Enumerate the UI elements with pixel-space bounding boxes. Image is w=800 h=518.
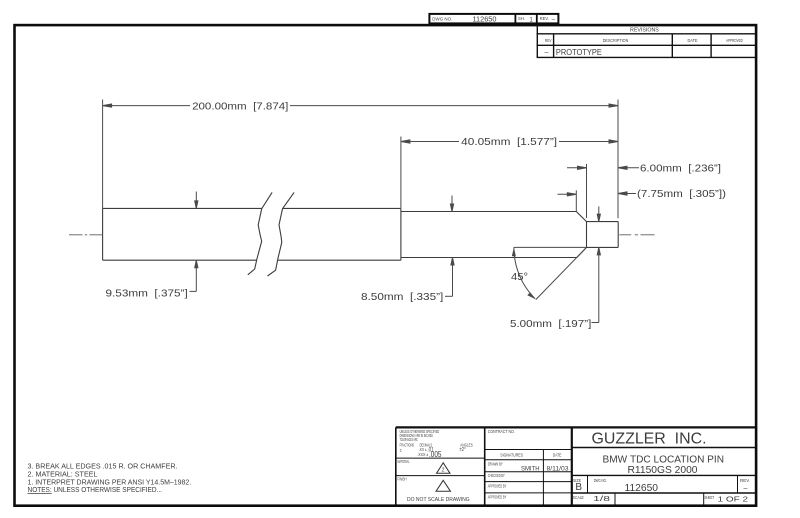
svg-text:6.00mm [.236”]: 6.00mm [.236”] <box>640 163 721 174</box>
svg-text:SH.: SH. <box>518 16 525 21</box>
svg-text:2: 2 <box>442 468 445 474</box>
centerline left <box>69 234 103 236</box>
svg-text:.005: .005 <box>429 450 442 459</box>
svg-text:REV.: REV. <box>540 16 549 21</box>
svg-text:9.53mm [.375”]: 9.53mm [.375”] <box>106 288 188 299</box>
shaft middle section 8.50mm dia <box>401 211 576 213</box>
size / dwg no / rev row <box>573 478 749 494</box>
svg-text:PROTOTYPE: PROTOTYPE <box>556 47 602 57</box>
svg-text:40.05mm [1.577”]: 40.05mm [1.577”] <box>461 137 557 148</box>
svg-text:SMITH: SMITH <box>521 465 540 472</box>
svg-text:SIGNATURES: SIGNATURES <box>500 453 523 458</box>
top title strip: DWG NO. box <box>429 13 558 24</box>
svg-text:REVISIONS: REVISIONS <box>630 28 659 34</box>
break line left squiggle <box>248 192 272 274</box>
svg-text:BMW TDC LOCATION PIN: BMW TDC LOCATION PIN <box>603 454 725 465</box>
dimension (7.75mm [.305"]) reference <box>558 190 637 211</box>
svg-text:CONTRACT NO.: CONTRACT NO. <box>488 429 515 434</box>
tolerance block text <box>400 429 473 459</box>
material cell <box>398 459 451 473</box>
svg-text:APPROVED: APPROVED <box>726 38 743 43</box>
svg-text:200.00mm [7.874]: 200.00mm [7.874] <box>192 101 288 112</box>
svg-text:8.50mm [.335”]: 8.50mm [.335”] <box>361 292 443 303</box>
left column rows <box>396 457 485 459</box>
svg-text:–: – <box>744 486 748 493</box>
svg-text:DATE: DATE <box>553 453 562 458</box>
svg-text:REV: REV <box>545 38 552 43</box>
right block rows <box>572 447 756 449</box>
svg-text:DESCRIPTION: DESCRIPTION <box>603 38 629 43</box>
svg-text:1/8: 1/8 <box>593 496 610 503</box>
centerline right <box>619 234 654 236</box>
shoulder step edge <box>400 208 402 260</box>
svg-text:SCALE: SCALE <box>573 495 584 500</box>
svg-text:112650: 112650 <box>625 483 659 494</box>
svg-text:REV: REV <box>740 478 749 483</box>
svg-text:8/11/03: 8/11/03 <box>547 465 570 472</box>
svg-text:DWG NO.: DWG NO. <box>432 17 452 22</box>
svg-text:R1150GS 2000: R1150GS 2000 <box>628 465 698 476</box>
svg-text:DATE: DATE <box>688 38 698 43</box>
svg-text:NOTES: UNLESS OTHERWISE SPECIF: NOTES: UNLESS OTHERWISE SPECIFIED... <box>28 485 163 494</box>
svg-text:MATERIAL: MATERIAL <box>398 459 410 464</box>
dimension 45 degree chamfer angle <box>512 247 587 299</box>
dimension 8.50mm [.335"] <box>445 196 454 297</box>
break line right squiggle <box>268 192 295 276</box>
svg-text:112650: 112650 <box>473 15 497 24</box>
svg-text:GUZZLER INC.: GUZZLER INC. <box>592 431 707 448</box>
svg-text:DRAWN BY: DRAWN BY <box>488 461 503 466</box>
shaft large section 9.53mm dia <box>103 207 262 209</box>
dimension 5.00mm [.197"] <box>592 206 601 322</box>
svg-text:±2°: ±2° <box>460 447 466 453</box>
svg-text:B: B <box>575 482 582 493</box>
svg-text:APPROVED BY: APPROVED BY <box>488 484 507 489</box>
svg-text:DO NOT SCALE DRAWING: DO NOT SCALE DRAWING <box>407 497 470 503</box>
dimension 200.00mm [7.874] <box>103 100 618 219</box>
chamfer bottom edge <box>577 247 587 257</box>
svg-text:1: 1 <box>529 16 533 23</box>
signature block text <box>488 429 569 500</box>
svg-text:(7.75mm [.305”]): (7.75mm [.305”]) <box>637 189 726 200</box>
shaft tip section 6.00mm dia <box>587 221 619 223</box>
svg-text:–: – <box>552 16 556 23</box>
svg-text:1 OF 2: 1 OF 2 <box>718 497 749 504</box>
chamfer end edge <box>586 222 588 248</box>
svg-text:FINISH: FINISH <box>398 477 407 482</box>
svg-text:.XXX ±: .XXX ± <box>417 452 428 457</box>
svg-text:SHEET: SHEET <box>705 495 715 500</box>
svg-text:5.00mm [.197”]: 5.00mm [.197”] <box>510 319 591 330</box>
svg-text:–: – <box>545 50 549 57</box>
middle column rows <box>485 449 572 451</box>
svg-text:APPROVED BY: APPROVED BY <box>488 495 507 500</box>
chamfer top edge <box>576 212 586 222</box>
dimension 9.53mm [.375"] <box>190 192 198 292</box>
finish cell <box>398 477 451 492</box>
svg-text:45°: 45° <box>511 272 528 283</box>
dimension 6.00mm [.236"] <box>567 164 639 218</box>
revisions table <box>537 25 756 57</box>
scale / sheet row <box>573 495 748 504</box>
svg-text:DWG NO.: DWG NO. <box>594 478 607 483</box>
svg-text:CHECKED BY: CHECKED BY <box>488 473 505 478</box>
dimension 40.05mm [1.577"] <box>401 137 618 209</box>
